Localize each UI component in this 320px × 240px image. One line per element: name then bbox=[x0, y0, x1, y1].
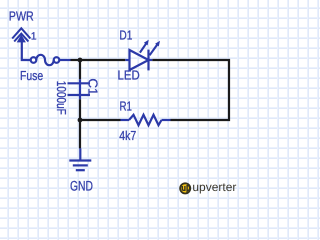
svg-text:Fuse: Fuse bbox=[20, 68, 43, 83]
ground GND bbox=[69, 148, 91, 170]
wire PWR to fuse bbox=[22, 39, 31, 60]
wire capacitor to node B bbox=[79, 99, 81, 120]
power flag PWR bbox=[12, 28, 30, 41]
svg-text:1000uF: 1000uF bbox=[54, 81, 69, 115]
LED D1 bbox=[125, 50, 152, 71]
node A junction bbox=[78, 58, 83, 63]
resistor R1 bbox=[121, 115, 171, 125]
svg-text:PWR: PWR bbox=[9, 8, 34, 23]
svg-text:D1: D1 bbox=[119, 28, 132, 43]
wire LED cathode to resistor via right side bbox=[152, 60, 229, 120]
node B junction bbox=[78, 118, 83, 123]
svg-text:C1: C1 bbox=[86, 78, 101, 95]
fuse F1 bbox=[31, 55, 60, 65]
wire node B to ground bbox=[79, 120, 81, 148]
wire fuse to node A bbox=[59, 59, 70, 61]
wire node B to resistor bbox=[80, 119, 121, 121]
upverter logo icon bbox=[180, 183, 190, 193]
LED arrows bbox=[140, 40, 160, 55]
svg-text:4k7: 4k7 bbox=[119, 128, 136, 143]
svg-text:LED: LED bbox=[118, 68, 140, 83]
svg-text:upverter: upverter bbox=[192, 180, 236, 194]
wire node A to LED bbox=[80, 59, 125, 61]
capacitor C1 bbox=[68, 79, 91, 99]
wire node A down to capacitor bbox=[79, 60, 81, 79]
svg-text:GND: GND bbox=[70, 179, 93, 194]
svg-text:1: 1 bbox=[31, 30, 37, 42]
svg-text:R1: R1 bbox=[120, 98, 133, 113]
